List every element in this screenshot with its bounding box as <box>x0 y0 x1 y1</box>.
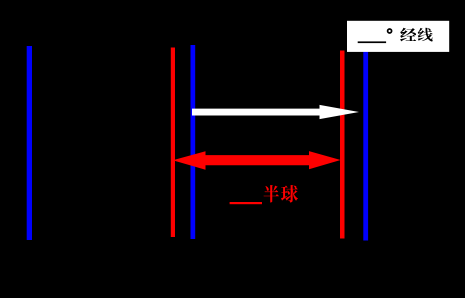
white arrow pointing to right blue meridian <box>192 105 359 119</box>
blank underline in label box <box>358 41 386 43</box>
meridian line (middle, red) <box>171 48 175 238</box>
red double-headed arrow between red meridians <box>173 151 341 170</box>
character 线 <box>418 28 433 42</box>
character 经 <box>400 28 416 42</box>
degree symbol <box>388 29 392 33</box>
character 半 <box>264 185 279 203</box>
red blank underline (hemisphere label) <box>230 202 262 204</box>
meridian line (left, blue) <box>27 46 32 240</box>
white label box <box>347 21 449 52</box>
meridian line (middle, blue) <box>191 45 196 239</box>
meridian line (right, red) <box>340 51 345 239</box>
character 球 <box>281 185 298 203</box>
meridian line (right, blue) <box>363 46 368 241</box>
